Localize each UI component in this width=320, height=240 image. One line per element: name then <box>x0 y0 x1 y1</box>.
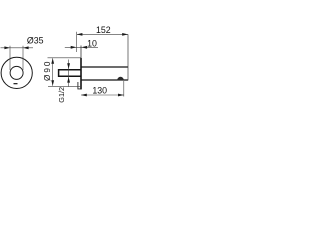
front view outer circle (escutcheon Ø90) <box>1 57 32 88</box>
dimension 152 arrow left <box>77 33 83 36</box>
dimension G1/2 up arrow at pipe bottom <box>67 77 70 83</box>
dimension G1/2 line (continuous through pipe) <box>68 60 70 87</box>
logo mark at bottom of escutcheon <box>14 83 18 84</box>
dimension Ø90 arrow up <box>51 58 54 64</box>
svg-text:152: 152 <box>96 25 111 35</box>
dimension Ø90 bottom extension line <box>48 86 81 88</box>
svg-text:Ø90: Ø90 <box>43 60 52 81</box>
dimension 10 line <box>65 46 98 48</box>
front view inner circle (spout tube Ø35) <box>10 66 23 79</box>
dimension 152 arrow right <box>122 33 128 36</box>
side view flange back step <box>78 82 81 89</box>
svg-text:G1/2: G1/2 <box>57 87 66 103</box>
dimension 10 arrow left (outside, pointing right) <box>71 46 77 49</box>
dimension 10 arrow right (outside, pointing left) <box>81 46 87 49</box>
dimension Ø35 line <box>1 47 34 49</box>
dimension Ø90 line <box>52 58 54 86</box>
side view spout arm bottom line <box>81 79 128 81</box>
background <box>0 0 130 130</box>
dimension 130 arrow right <box>118 94 124 97</box>
dimension Ø35 arrow left <box>4 46 10 49</box>
dimension Ø90 top extension line <box>48 57 82 59</box>
side view outlet dome on arm underside <box>118 77 124 80</box>
dimension G1/2 down arrow at pipe top <box>67 63 70 69</box>
side view wall flange plate <box>80 58 82 89</box>
svg-text:130: 130 <box>92 86 107 96</box>
dimension 130 right extension line <box>123 81 125 97</box>
dimension Ø35 arrow right <box>23 46 29 49</box>
side view G1/2 threaded pipe stub <box>59 70 82 77</box>
dimension 152 extension line left <box>76 32 78 52</box>
extension line above flange (wall face) <box>80 46 82 59</box>
dimension 130 line <box>81 94 124 96</box>
dimension 152 line <box>77 33 128 35</box>
side view spout arm top line <box>81 66 128 68</box>
svg-text:Ø35: Ø35 <box>27 35 44 45</box>
dimension Ø90 arrow down <box>51 80 54 86</box>
dimension Ø35 extension line left <box>9 46 11 70</box>
side view spout arm end edge <box>127 34 129 80</box>
dimension 130 arrow left <box>81 94 87 97</box>
dimension Ø35 extension line right <box>22 46 24 70</box>
svg-text:10: 10 <box>87 38 97 48</box>
